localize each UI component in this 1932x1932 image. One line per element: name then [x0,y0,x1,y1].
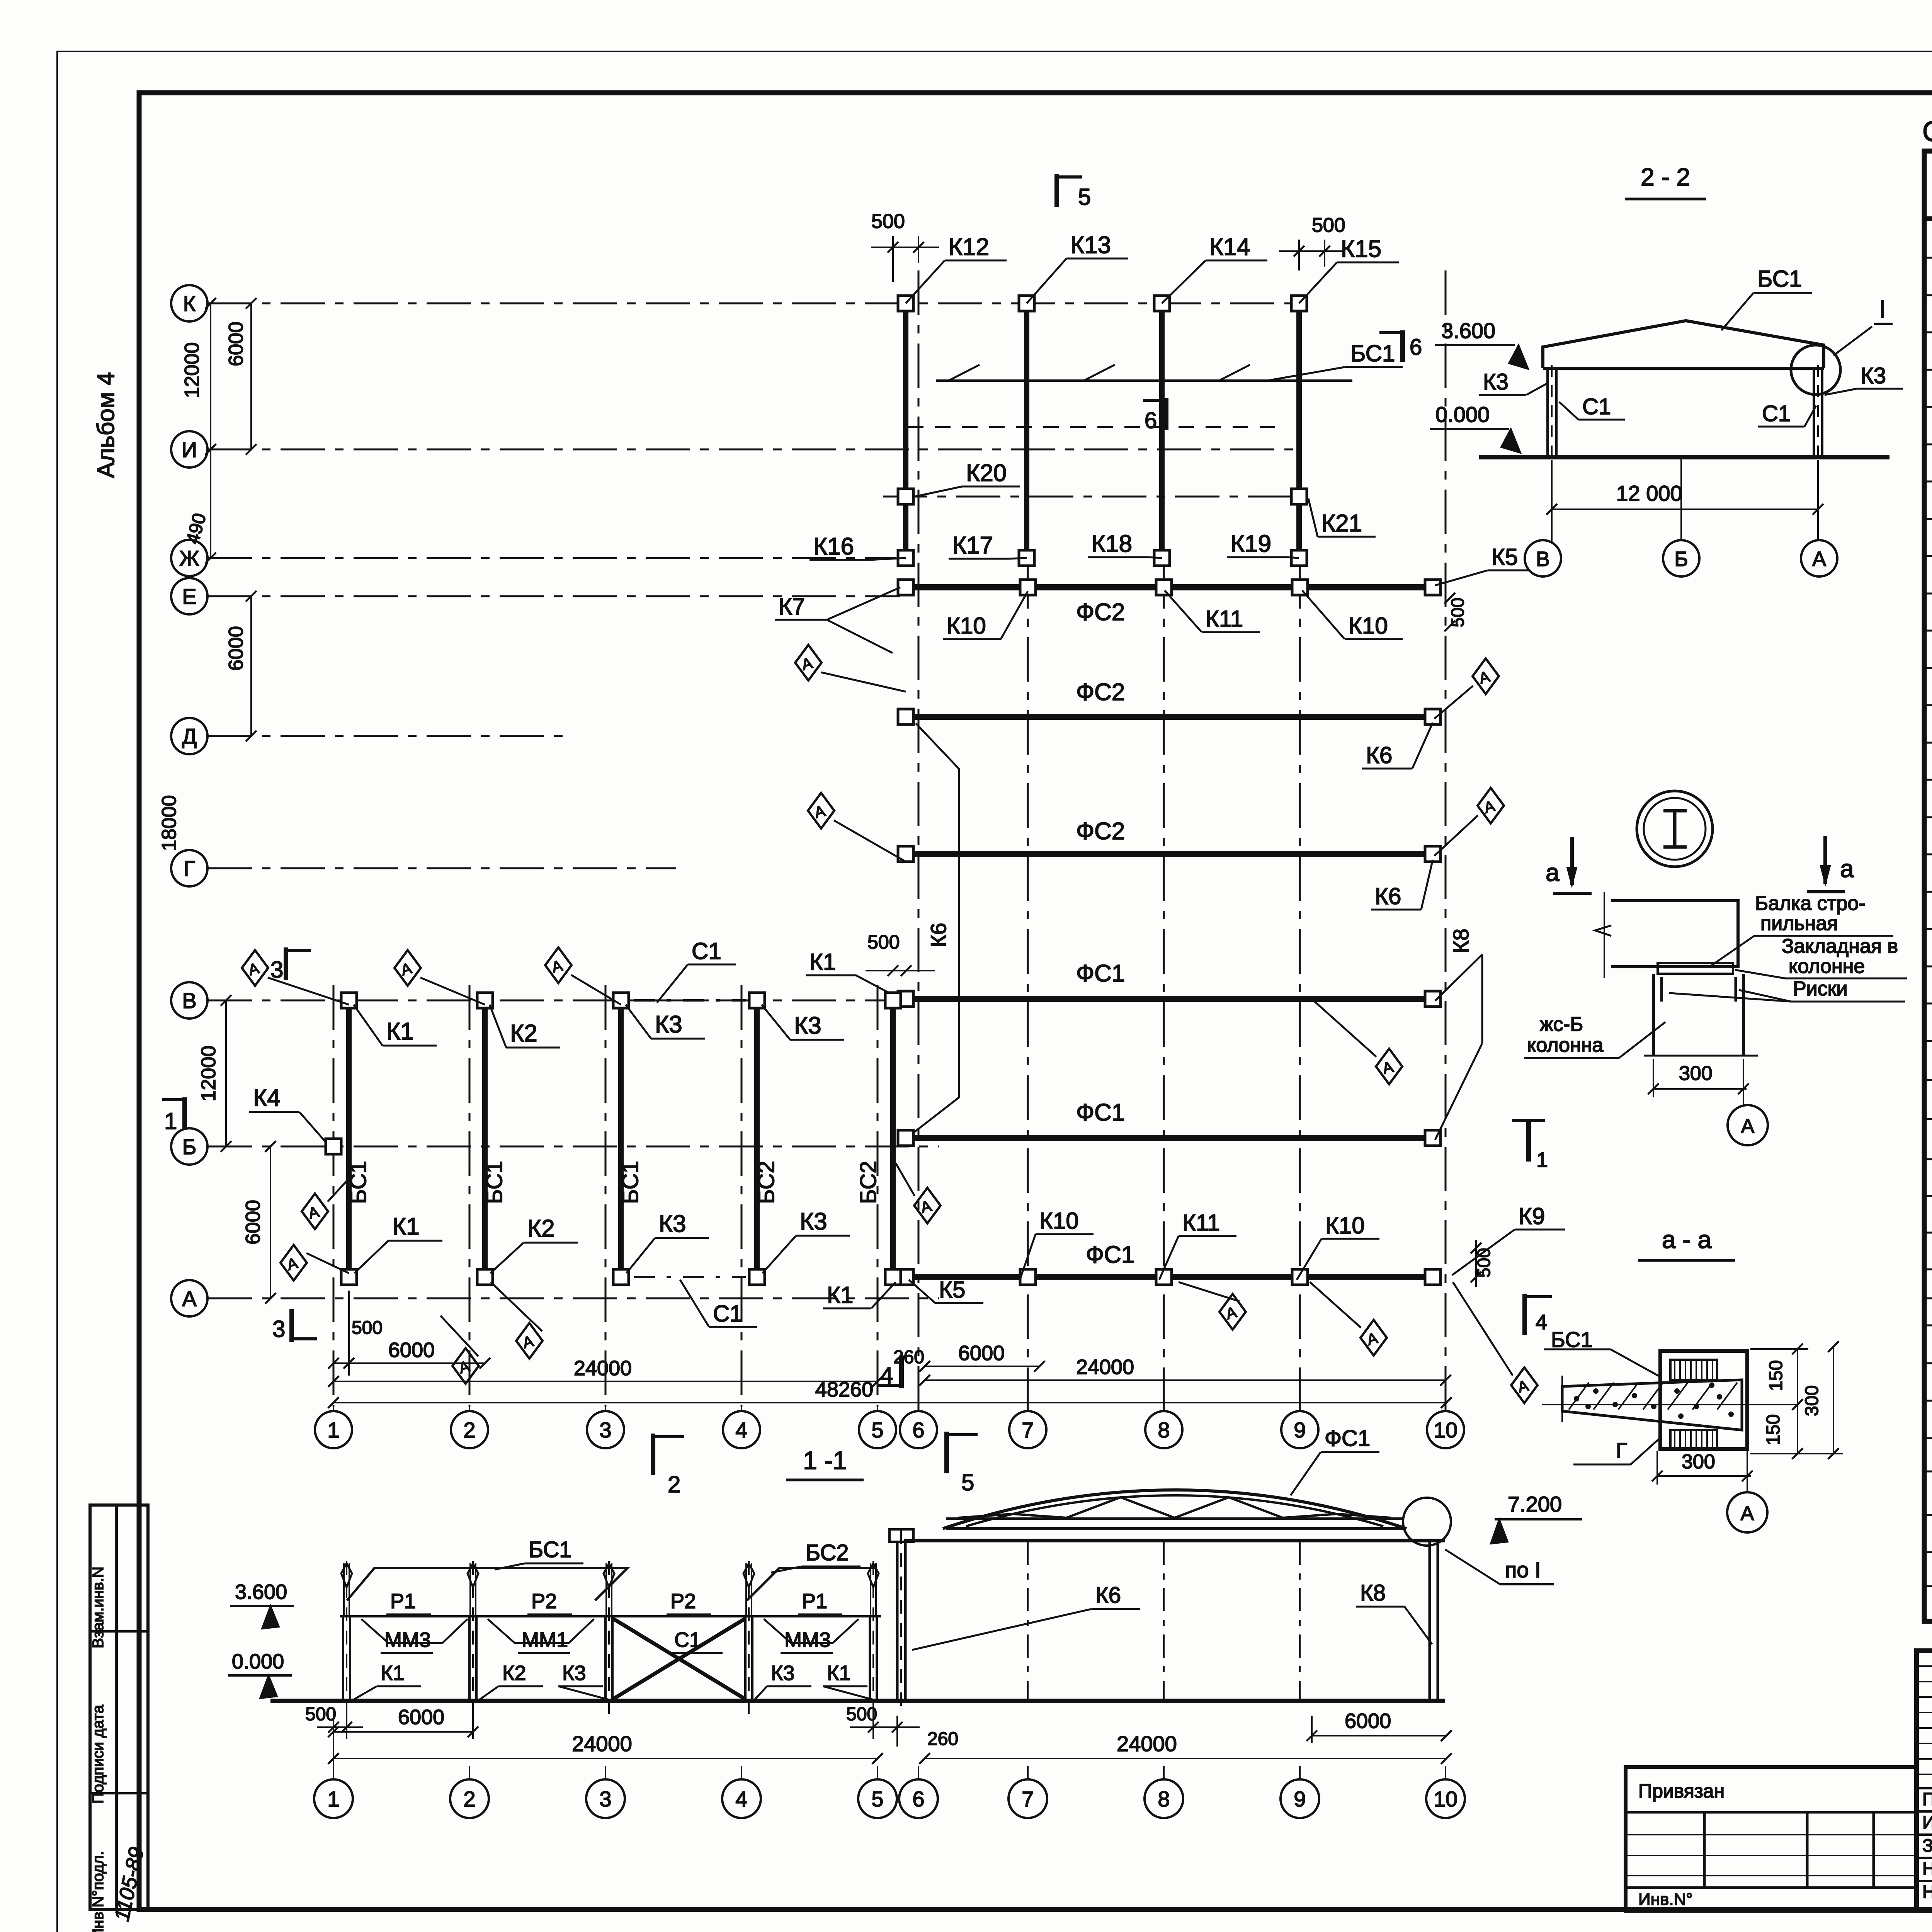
svg-text:24000: 24000 [1117,1731,1177,1756]
a-a beam strip hatched [1562,1380,1742,1430]
svg-text:3: 3 [272,1316,285,1342]
truss webs [958,1497,1391,1518]
svg-text:9: 9 [1294,1787,1306,1811]
svg-text:К3: К3 [1861,363,1886,388]
svg-text:А: А [1812,548,1826,571]
svg-text:БС1: БС1 [1757,266,1802,292]
svg-text:2: 2 [668,1471,680,1497]
svg-text:К6: К6 [1366,742,1392,768]
svg-text:5: 5 [871,1418,883,1442]
svg-text:К6: К6 [1095,1583,1121,1608]
X brace span 3-4 [612,1618,746,1699]
MM connector trapezoids [361,1619,468,1643]
svg-text:Д: Д [182,724,197,748]
svg-text:С1: С1 [692,938,721,964]
svg-text:24000: 24000 [1076,1355,1134,1379]
svg-text:К4: К4 [253,1085,281,1111]
svg-text:Зав.гр.: Зав.гр. [1922,1835,1932,1855]
svg-text:К3: К3 [1483,369,1509,395]
svg-text:6000: 6000 [388,1338,435,1362]
svg-text:К3: К3 [562,1662,586,1685]
svg-text:К15: К15 [1341,236,1381,262]
svg-text:БС2: БС2 [754,1161,779,1204]
K6 marker line inside hall [914,723,959,1132]
svg-text:К11: К11 [1206,606,1243,632]
svg-text:К2: К2 [502,1662,526,1685]
svg-text:К13: К13 [1070,232,1111,259]
hall interior axis dash lines [1027,1542,1029,1701]
svg-text:К2: К2 [510,1020,537,1047]
svg-text:К3: К3 [655,1011,682,1038]
svg-text:3.600: 3.600 [1441,318,1495,343]
beam БС1 trapezoid [347,1568,628,1600]
svg-text:Провер.: Провер. [1922,1789,1932,1809]
svg-text:1 -1: 1 -1 [803,1446,847,1475]
svg-text:300: 300 [1682,1451,1715,1473]
svg-text:К5: К5 [1492,544,1518,570]
svg-text:Привязан: Привязан [1638,1780,1725,1802]
svg-text:Закладная в: Закладная в [1782,935,1898,957]
svg-text:8: 8 [1158,1418,1170,1442]
svg-text:К10: К10 [1349,613,1388,639]
hall left column K6 1-1 [896,1542,899,1701]
2-2 axis circles В Б А [1525,540,1561,577]
svg-text:ФС1: ФС1 [1076,1099,1125,1126]
svg-text:1: 1 [1536,1148,1548,1172]
svg-text:К11: К11 [1182,1210,1220,1236]
svg-text:3.600: 3.600 [235,1580,287,1604]
section mark 3 bottom [289,1309,294,1342]
svg-text:ФС1: ФС1 [1325,1426,1370,1451]
svg-text:К20: К20 [966,460,1007,486]
svg-text:колонна: колонна [1527,1034,1603,1056]
stamp Привязан [1626,1767,1917,1911]
svg-text:Ж: Ж [179,546,199,570]
svg-text:8: 8 [1158,1787,1170,1811]
diamond markers [242,950,268,986]
svg-text:ФС1: ФС1 [1076,960,1125,987]
svg-text:К10: К10 [1325,1213,1365,1238]
section mark a right [1823,836,1827,884]
beam БС2 trapezoid [747,1568,876,1600]
svg-text:С1: С1 [1582,394,1611,419]
svg-text:Р1: Р1 [802,1590,827,1613]
section 1-1 beam level line [340,1615,881,1617]
a-a ribbed plates vertical hatch [1670,1360,1717,1380]
svg-text:260: 260 [927,1729,958,1749]
svg-text:Взам.инв.N: Взам.инв.N [90,1566,107,1648]
svg-text:БС1: БС1 [529,1537,572,1562]
a-a dims 150 150 300 [1797,1349,1798,1454]
svg-text:260: 260 [893,1347,924,1367]
svg-text:0.000: 0.000 [1435,402,1490,427]
left margin stamp boxes [90,1505,116,1910]
svg-text:К1: К1 [827,1282,853,1308]
title block staff rows [1917,1787,1932,1789]
lower block beam vertical lines БС [346,1000,352,1277]
svg-text:7: 7 [1022,1787,1034,1811]
hall beam end squares [898,580,913,595]
title block left thin rows [1917,1665,1932,1667]
svg-text:Г: Г [1616,1439,1627,1462]
svg-text:6000: 6000 [225,626,247,671]
svg-text:К8: К8 [1360,1580,1386,1605]
hall roof line 1-1 [904,1539,1445,1543]
svg-text:500: 500 [1447,598,1468,628]
svg-text:К14: К14 [1209,234,1250,260]
svg-text:БС2: БС2 [856,1161,881,1204]
svg-text:Балка стро-: Балка стро- [1755,892,1866,915]
letter axis circles [171,285,207,321]
section 2-2 left column K3 [1546,368,1549,457]
section 1-1 axis circles [314,1779,353,1818]
axis line through K20 K21 columns [883,496,1304,498]
svg-text:К1: К1 [810,949,836,975]
column K21 square [1291,489,1307,504]
section mark 3 top [284,947,288,980]
svg-text:18000: 18000 [158,795,180,851]
svg-text:500: 500 [871,210,905,233]
svg-text:К3: К3 [794,1012,821,1039]
svg-text:5: 5 [871,1787,883,1811]
svg-text:а - а: а - а [1662,1226,1711,1253]
title block outer [1917,1651,1932,1911]
section mark T1 [1512,1119,1545,1122]
svg-text:6000: 6000 [958,1342,1005,1365]
svg-text:300: 300 [1679,1062,1713,1085]
svg-text:24000: 24000 [574,1357,632,1380]
svg-text:3: 3 [599,1787,611,1811]
column K20 square [898,489,913,504]
svg-text:А: А [1741,1502,1754,1525]
svg-text:6000: 6000 [242,1200,264,1245]
svg-text:10: 10 [1434,1787,1458,1811]
svg-text:Б: Б [1674,548,1688,571]
svg-text:ФС2: ФС2 [1076,679,1125,706]
svg-text:12000: 12000 [197,1046,220,1102]
svg-text:БС1: БС1 [1350,340,1395,366]
svg-text:24000: 24000 [572,1731,632,1756]
svg-text:0.000: 0.000 [232,1650,284,1673]
svg-text:Е: Е [182,584,196,609]
svg-text:6: 6 [1145,408,1157,433]
svg-text:5: 5 [961,1469,974,1495]
svg-text:Инж.Тк.: Инж.Тк. [1922,1812,1932,1832]
svg-text:В: В [1536,548,1550,571]
node I detail circle [1637,791,1713,867]
section mark 1 left [182,1097,187,1130]
plan number circles [315,1411,352,1448]
svg-text:К2: К2 [527,1215,555,1242]
node I axis circle А [1728,1105,1768,1145]
svg-text:К18: К18 [1092,531,1132,557]
svg-text:150: 150 [1766,1360,1786,1391]
svg-text:2: 2 [463,1787,475,1811]
column under node [1653,974,1743,1056]
svg-text:Инв.N°: Инв.N° [1638,1890,1693,1909]
hall right column K8 1-1 [1429,1541,1431,1701]
svg-text:300: 300 [1802,1385,1822,1416]
svg-text:Р2: Р2 [531,1590,557,1613]
svg-text:К3: К3 [800,1208,827,1235]
lower block squares top row on axis В [341,993,357,1008]
svg-text:500: 500 [305,1704,336,1725]
diamond leader lines [1453,1282,1513,1376]
a-a column square [1660,1351,1747,1449]
svg-text:К5: К5 [939,1277,965,1303]
section mark 2 bottom [651,1434,655,1475]
section mark 6 right [1400,330,1405,362]
plan bottom dimension tier3 48260 [333,1402,1446,1403]
svg-text:К9: К9 [1519,1203,1545,1229]
svg-text:К19: К19 [1231,531,1271,557]
node I circle on 2-2 [1791,345,1840,395]
svg-text:Р2: Р2 [670,1590,696,1613]
svg-text:6: 6 [912,1418,924,1442]
svg-text:К1: К1 [381,1662,405,1685]
svg-text:Спецификация элементов к схеме: Спецификация элементов к схеме расположе… [1922,116,1932,147]
svg-text:В: В [182,988,196,1013]
letter axis lines [207,303,1298,304]
svg-text:К: К [183,291,196,316]
rafter beam rectangle [1611,901,1738,967]
svg-text:К17: К17 [952,532,993,559]
svg-text:К10: К10 [1039,1208,1079,1234]
svg-text:БС1: БС1 [1551,1327,1593,1352]
svg-text:К6: К6 [926,923,951,947]
svg-text:48260: 48260 [815,1378,873,1401]
svg-text:жс-Б: жс-Б [1540,1013,1583,1036]
section mark 6 upper [1164,398,1168,430]
svg-text:2: 2 [463,1418,475,1442]
svg-text:1: 1 [327,1787,339,1811]
section mark 4 a-a [1522,1294,1527,1335]
svg-text:5: 5 [1078,184,1091,210]
plan bottom dimension tier1 right [925,1366,1039,1367]
svg-text:а: а [1840,855,1854,883]
svg-text:БС1: БС1 [346,1161,371,1204]
plan bottom dimension tier2 [333,1381,878,1382]
svg-text:7: 7 [1022,1418,1034,1442]
risk marks [1660,977,1663,1002]
a-a axis circle А [1727,1492,1767,1532]
svg-text:БС2: БС2 [806,1540,849,1565]
hall roof beams ФС [909,584,1433,590]
svg-text:10: 10 [1434,1418,1458,1442]
svg-text:А: А [182,1286,197,1311]
svg-text:4: 4 [735,1787,747,1811]
svg-text:К1: К1 [386,1018,414,1045]
spec table grid [1924,151,1932,1621]
svg-text:500: 500 [1312,214,1345,236]
svg-text:4: 4 [735,1418,747,1442]
svg-text:К3: К3 [771,1662,795,1685]
section mark 4 bottom [899,1355,904,1388]
node circle 1-1 [1403,1498,1451,1546]
column K4 square on axis Б [326,1139,341,1154]
section 2-2 roof [1543,321,1824,368]
svg-text:ММ3: ММ3 [384,1628,431,1651]
truss arc ФС1 [946,1527,1403,1530]
svg-text:колонне: колонне [1789,955,1865,978]
svg-text:К6: К6 [1375,883,1401,909]
svg-text:К3: К3 [659,1211,686,1237]
svg-text:4: 4 [1536,1311,1547,1334]
section 2-2 right column K3 [1813,368,1815,457]
svg-text:6000: 6000 [398,1706,444,1729]
svg-text:Б: Б [182,1134,197,1159]
section mark 5 bottom [944,1432,949,1473]
svg-text:К21: К21 [1321,510,1362,537]
svg-text:Р1: Р1 [390,1590,416,1613]
svg-text:7.200: 7.200 [1508,1492,1562,1516]
svg-text:150: 150 [1763,1414,1784,1445]
svg-text:Н.контр.: Н.контр. [1922,1859,1932,1879]
svg-text:12000: 12000 [181,342,203,398]
svg-text:С1: С1 [713,1301,743,1327]
svg-text:пильная: пильная [1760,912,1838,935]
section 1-1 columns [342,1616,344,1701]
svg-text:ФС2: ФС2 [1076,599,1125,626]
svg-text:1: 1 [327,1418,339,1442]
svg-text:Риски: Риски [1793,978,1848,1000]
svg-text:ММ1: ММ1 [522,1628,568,1651]
svg-text:К16: К16 [813,533,854,560]
svg-text:а: а [1546,859,1560,886]
svg-text:3: 3 [599,1418,611,1442]
section 1-1 ground line [270,1699,1445,1703]
svg-text:Нач.отд.: Нач.отд. [1922,1882,1932,1902]
svg-text:I: I [1879,295,1886,323]
svg-text:500: 500 [352,1318,383,1338]
svg-text:К1: К1 [392,1213,420,1240]
svg-text:Г: Г [184,856,195,881]
number axis dash-dot lines [333,985,335,1406]
svg-text:9: 9 [1294,1418,1306,1442]
section mark 5 top [1054,174,1059,207]
svg-text:12 000: 12 000 [1616,481,1682,505]
upper block column squares bottom row [898,550,913,566]
svg-text:1: 1 [164,1108,177,1134]
svg-text:А: А [1741,1115,1755,1138]
svg-text:И: И [182,437,197,462]
section 2-2 ground line [1479,455,1889,459]
svg-text:К1: К1 [827,1662,851,1685]
svg-text:Подписи дата: Подписи дата [90,1704,107,1803]
svg-text:по I: по I [1505,1558,1541,1582]
svg-text:2 - 2: 2 - 2 [1641,163,1690,191]
svg-text:К8: К8 [1449,929,1473,953]
upper block column squares top row [898,296,913,311]
lower block squares bottom row [341,1269,357,1285]
svg-text:ММ3: ММ3 [784,1628,831,1651]
svg-text:500: 500 [867,931,900,953]
svg-text:Инв.N°подл.: Инв.N°подл. [90,1851,107,1932]
svg-text:С1: С1 [1762,401,1791,426]
svg-text:ФС2: ФС2 [1076,818,1125,845]
svg-text:6: 6 [1410,335,1422,360]
plan bottom dimension tier1 [333,1362,485,1364]
svg-text:БС1: БС1 [482,1161,507,1204]
embedded plate [1658,963,1733,974]
a-a axis line [1542,1404,1798,1405]
svg-text:6: 6 [912,1787,924,1811]
upper block beam line БС1 [936,379,1352,382]
svg-text:6000: 6000 [225,321,247,366]
svg-text:К7: К7 [779,594,805,619]
svg-text:К12: К12 [949,234,989,260]
svg-text:6000: 6000 [1345,1709,1391,1733]
upper block columns K12-K15 vertical lines [903,303,908,558]
svg-text:Альбом 4: Альбом 4 [93,372,119,478]
svg-text:БС1: БС1 [618,1161,643,1204]
svg-text:К10: К10 [947,613,986,639]
left dimension column [210,303,211,558]
svg-text:ФС1: ФС1 [1086,1242,1134,1268]
